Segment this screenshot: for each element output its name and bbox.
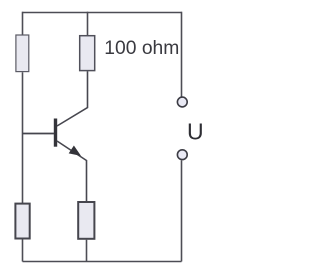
transistor Q1 base bar bbox=[54, 119, 57, 147]
resistor R4 bbox=[78, 202, 94, 239]
wire right rail upper segment bbox=[181, 12, 183, 97]
resistor R2 bbox=[80, 36, 95, 71]
wire collector segment bbox=[57, 71, 88, 126]
terminal node circle top bbox=[177, 97, 187, 107]
wire bottom rail bbox=[23, 261, 182, 263]
wire left rail upper segment bbox=[22, 12, 24, 35]
wire top rail bbox=[23, 12, 182, 14]
wire left rail lower segment bbox=[22, 239, 24, 261]
wire middle branch upper segment bbox=[87, 12, 89, 35]
wire middle branch lower segment bbox=[86, 240, 88, 262]
wire right rail lower segment bbox=[181, 161, 183, 262]
svg-text:U: U bbox=[187, 118, 204, 144]
transistor Q1 emitter arrowhead bbox=[70, 146, 80, 155]
transistor Q1 emitter wire bbox=[57, 141, 87, 201]
wire left rail middle segment bbox=[22, 72, 24, 203]
terminal node circle bottom bbox=[177, 150, 187, 160]
transistor Q1 base lead wire bbox=[23, 133, 55, 135]
resistor R1 bbox=[16, 35, 29, 72]
resistor R3 bbox=[15, 204, 29, 239]
svg-text:100 ohm: 100 ohm bbox=[104, 38, 179, 59]
